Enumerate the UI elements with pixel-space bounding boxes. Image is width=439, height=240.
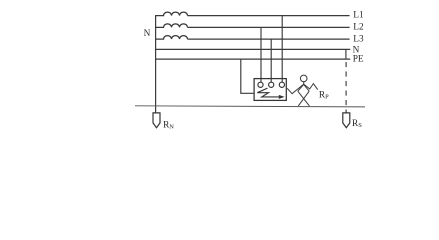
wire L3 xyxy=(188,38,350,40)
appliance enclosure box xyxy=(254,79,286,101)
wire: N to PE link at right xyxy=(345,49,347,59)
fault arrow (insulation fault zigzag) xyxy=(257,88,280,97)
svg-text:PE: PE xyxy=(353,55,364,65)
torso lines xyxy=(298,84,309,91)
svg-text:RS: RS xyxy=(352,119,362,129)
winding L3 (coil) xyxy=(156,36,188,40)
terminal 3 xyxy=(279,82,284,87)
neck xyxy=(303,82,305,85)
earth electrode RN xyxy=(153,113,160,128)
svg-text:L3: L3 xyxy=(353,35,364,45)
crossed legs xyxy=(298,91,310,106)
right arm zigzag xyxy=(304,84,318,90)
terminal 1 xyxy=(258,82,263,87)
wire N xyxy=(156,48,351,50)
left arm touching enclosure xyxy=(287,84,304,94)
wire: drop from L3 to terminal 2 xyxy=(270,39,272,82)
svg-text:L1: L1 xyxy=(353,10,364,20)
wire L1 xyxy=(188,15,350,17)
wire: transformer star-point vertical xyxy=(155,15,157,113)
terminal 2 xyxy=(269,82,274,87)
winding L2 (coil) xyxy=(156,24,188,27)
winding L1 (coil) xyxy=(156,12,188,15)
person (stick figure) xyxy=(287,75,318,106)
wire: drop from L2 to terminal 1 xyxy=(260,27,262,82)
earth (ground) line xyxy=(135,106,365,107)
dashed earthing conductor to RS electrode xyxy=(345,62,347,113)
svg-text:RP: RP xyxy=(319,91,329,101)
wire PE xyxy=(156,58,351,60)
svg-text:L2: L2 xyxy=(353,22,364,32)
wire: drop from L1 to terminal 3 xyxy=(281,16,283,83)
svg-text:N: N xyxy=(144,29,151,39)
head xyxy=(300,75,307,82)
svg-text:RN: RN xyxy=(163,121,174,131)
wire L2 xyxy=(188,26,350,28)
earth electrode RS xyxy=(343,113,350,128)
wire: PE drop to enclosure xyxy=(241,59,254,93)
